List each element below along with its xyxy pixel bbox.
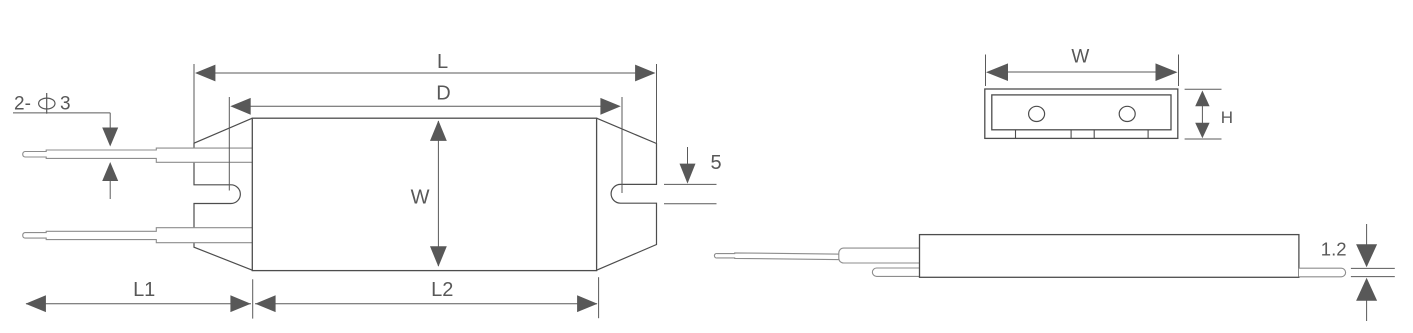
side view sleeve bbox=[839, 248, 920, 263]
side view lower tab bbox=[872, 268, 920, 276]
svg-text:L1: L1 bbox=[133, 279, 155, 301]
svg-text:W: W bbox=[1071, 47, 1089, 68]
side view lead wire bbox=[714, 253, 845, 260]
body rectangle bbox=[252, 118, 596, 270]
dimension D bbox=[229, 97, 622, 193]
dimension 5 (slot width) bbox=[664, 147, 717, 204]
svg-text:H: H bbox=[1221, 108, 1233, 127]
end view inner case bbox=[992, 95, 1171, 130]
side view body bbox=[920, 235, 1299, 278]
end view bottom ticks bbox=[1016, 130, 1149, 139]
upper lead wire bbox=[23, 148, 253, 162]
dimension W (vertical in body) bbox=[437, 121, 439, 266]
svg-text:D: D bbox=[436, 83, 450, 105]
svg-text:W: W bbox=[411, 187, 430, 209]
end view outer case bbox=[985, 89, 1178, 138]
dimension W (end view) bbox=[986, 55, 1179, 87]
left flange with open slot bbox=[194, 118, 252, 270]
svg-text:5: 5 bbox=[711, 152, 722, 174]
end view hole left bbox=[1029, 106, 1045, 121]
svg-text:L: L bbox=[437, 51, 448, 73]
dimension H (end view) bbox=[1185, 89, 1222, 139]
dimension L1 bbox=[26, 279, 253, 318]
right flange with open slot bbox=[597, 118, 657, 270]
end view hole right bbox=[1119, 106, 1135, 121]
svg-text:L2: L2 bbox=[431, 279, 453, 301]
svg-text:3: 3 bbox=[60, 94, 71, 115]
side view right tab bbox=[1299, 268, 1346, 277]
dimension L2 bbox=[255, 277, 599, 318]
dimension 1.2 (tab thickness) bbox=[1351, 224, 1395, 321]
dimension L bbox=[194, 64, 657, 143]
svg-text:1.2: 1.2 bbox=[1321, 239, 1347, 260]
lower lead wire bbox=[23, 228, 253, 243]
svg-text:2-: 2- bbox=[14, 94, 31, 115]
